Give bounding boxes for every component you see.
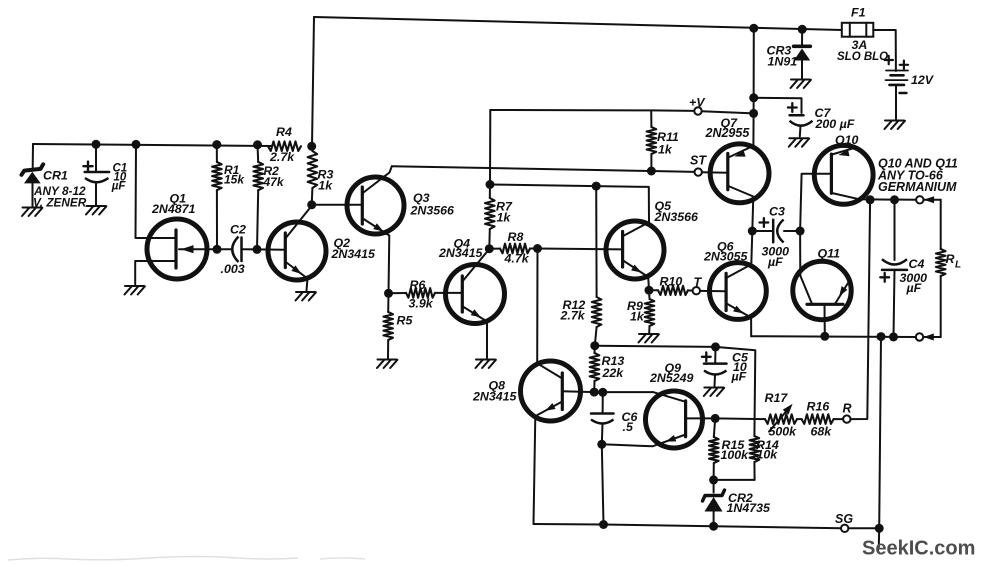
ground under C7 [789, 137, 808, 139]
svg-text:R8: R8 [508, 230, 524, 244]
svg-text:R4: R4 [276, 125, 292, 139]
wire SG to feedback column [848, 527, 879, 529]
node C5 top [711, 342, 720, 351]
resistor R10 [649, 289, 658, 291]
wire Q6 emitter down to output bottom rail [727, 304, 752, 337]
svg-text:100k: 100k [721, 448, 750, 462]
svg-text:SeekIC.com: SeekIC.com [862, 538, 975, 560]
wire R13 top to C5 and R14 feed [595, 346, 756, 436]
resistor R8 4.7k [489, 248, 500, 250]
svg-text:1k: 1k [658, 143, 673, 157]
capacitor C4 3000uF [894, 200, 896, 260]
svg-text:+V: +V [689, 96, 706, 110]
capacitor C6 .5 [602, 392, 604, 413]
svg-text:SG: SG [835, 512, 853, 526]
svg-text:R17: R17 [765, 391, 789, 405]
svg-text:2N3415: 2N3415 [472, 390, 518, 404]
resistor R6 3.9k [389, 292, 407, 294]
wire Q9 base to R15/R17 node [686, 417, 716, 419]
arrow into bottom output terminal [923, 334, 934, 341]
battery 12V [885, 59, 893, 61]
svg-text:2.7k: 2.7k [269, 150, 295, 164]
node R7 top [486, 180, 495, 189]
svg-text:µF: µF [111, 181, 127, 193]
wire C6 bottom down to bottom rail [602, 444, 604, 524]
ground under C5 [704, 387, 723, 389]
svg-text:µF: µF [731, 370, 747, 384]
arrow into top output terminal [924, 196, 935, 203]
ground under CR1 [23, 207, 42, 209]
svg-text:15k: 15k [224, 172, 245, 186]
wire Q1 emitter to node [179, 248, 232, 250]
svg-text:V. ZENER: V. ZENER [33, 196, 87, 210]
wire along Q8 base to Q9 collector [594, 391, 653, 393]
transistor Q6 2N3055 [710, 263, 767, 320]
svg-text:SLO BLO: SLO BLO [837, 51, 888, 63]
load resistor RL [940, 200, 942, 249]
node rail-Q1 feed [132, 140, 141, 149]
wire Q3 emitter down to R6/R5 node [363, 219, 390, 294]
node R12 / R13 / C5 wire [590, 341, 599, 350]
svg-text:1k: 1k [318, 178, 333, 192]
svg-text:1N91: 1N91 [768, 55, 798, 69]
svg-text:2N3566: 2N3566 [654, 210, 699, 224]
node C3 right / Q10 base column [796, 227, 805, 236]
terminal +V [694, 107, 701, 114]
node C2-R2-Q2 base [253, 245, 262, 254]
wire Q9 emitter to C6 bottom [602, 435, 686, 447]
wire Q11 collector diagonal to base column [800, 276, 812, 304]
wire Q5 collector up [623, 222, 649, 236]
svg-text:1k: 1k [630, 310, 645, 324]
node CR2 on SG rail [709, 522, 718, 531]
svg-text:R: R [843, 402, 852, 416]
wire R3 node to Q3 base [312, 204, 363, 206]
svg-text:Q11: Q11 [818, 247, 841, 261]
wire Q9 base node to R17 [715, 417, 765, 420]
svg-text:GERMANIUM: GERMANIUM [878, 180, 957, 194]
wire T to Q6 base [700, 290, 726, 292]
resistor R11 1k [650, 110, 652, 127]
node bottom rail at C6 [599, 520, 608, 529]
wire Q7 column to top rail [753, 28, 755, 113]
node output top / C4 [890, 195, 899, 204]
node C4 bottom [889, 332, 898, 341]
node Q1 emitter / R1 bottom [213, 245, 222, 254]
wire Q2 collector [286, 206, 312, 238]
svg-text:47k: 47k [263, 175, 285, 189]
svg-text:T: T [694, 276, 703, 290]
node R3 bottom / Q2 collector / Q3 base [307, 200, 316, 209]
svg-text:2N4871: 2N4871 [151, 202, 196, 216]
wire output bottom rail [751, 335, 916, 338]
ground under C1 [87, 205, 106, 207]
node R8 / Q5 base / Q8 collector [533, 244, 542, 253]
terminal T [693, 287, 700, 294]
zener diode CR2 1N4735 [713, 480, 715, 493]
resistor R1 15k [216, 145, 218, 162]
wire stub below SG node [878, 528, 880, 547]
node C7 branch [749, 93, 758, 102]
node Q3 emitter / R6 / R5 [384, 289, 393, 298]
svg-text:2.7k: 2.7k [560, 309, 586, 323]
wire vertical from top rail down to R4/R3 junction [312, 17, 314, 146]
transistor Q10 [814, 145, 873, 204]
wire bottom rail to SG [534, 524, 842, 528]
svg-text:12V: 12V [911, 73, 935, 87]
node top rail / Q7 column [749, 24, 758, 33]
svg-text:3A: 3A [852, 38, 868, 52]
wire Q6 collector up to C3 node [727, 231, 753, 278]
node Q5 emitter / R10 / R9 [645, 286, 654, 295]
svg-text:C2: C2 [230, 223, 246, 237]
svg-text:10k: 10k [757, 448, 779, 462]
terminal output bottom [916, 333, 923, 340]
wire ST to Q7 base [702, 171, 728, 174]
ground under battery [885, 120, 904, 122]
capacitor C2 .003 [232, 237, 238, 263]
terminal R [843, 415, 850, 422]
wire Q11 base down to output bottom rail [824, 304, 826, 336]
svg-text:500k: 500k [769, 424, 798, 438]
wire R14 bottom to CR2 node [714, 479, 755, 481]
wire Q1 base-1 to ground [135, 261, 175, 285]
resistor R9 1k [648, 290, 651, 299]
svg-text:L: L [955, 260, 961, 271]
wire Q10 base column [800, 174, 831, 276]
svg-text:2N3415: 2N3415 [331, 247, 377, 261]
node rail-R1 [212, 140, 221, 149]
wire Q3 collector to ST line [363, 166, 392, 193]
svg-text:2N3055: 2N3055 [703, 250, 749, 264]
wire Q2 emitter to ground [286, 262, 308, 291]
capacitor C5 10uF [714, 347, 716, 364]
fuse F1 3A SLO BLO [842, 23, 874, 37]
transistor Q7 2N2955 [710, 144, 769, 203]
ground under CR3 [791, 79, 810, 81]
wire R8 node down to Q8 collector [536, 249, 538, 364]
svg-text:68k: 68k [811, 424, 833, 438]
wire vertical +V corner down to R7 [489, 110, 491, 185]
wire Q8 emitter down to bottom rail [534, 402, 563, 525]
wire Q4 collector to R8 node [463, 249, 490, 281]
capacitor C1 10uF [95, 144, 97, 172]
wire top rail from Q3 column to fuse F1 [314, 17, 842, 30]
node R15/R14/CR2 [709, 475, 718, 484]
wire Q9 collector diagonal [653, 392, 686, 402]
wire Q4 emitter to ground [463, 307, 487, 359]
svg-text:ST: ST [690, 154, 707, 168]
wire +V terminal to Q7 emitter column [702, 111, 754, 113]
svg-text:µF: µF [906, 281, 922, 295]
wire Q3 collector to ST terminal [392, 166, 695, 172]
wire Q11 emitter diagonal (arrow) [835, 280, 850, 304]
svg-text:2N3566: 2N3566 [410, 204, 455, 218]
svg-text:.003: .003 [221, 262, 245, 276]
transistor Q5 2N3566 [606, 221, 664, 279]
ground under Q4 [476, 359, 495, 361]
transistor Q4 2N3415 [446, 265, 505, 324]
transistor Q9 2N5249 (mirrored) [646, 391, 703, 448]
svg-text:3.9k: 3.9k [409, 297, 434, 311]
node Q9 base / R15 / R17 wire [711, 414, 720, 423]
wire +V line [490, 109, 694, 112]
svg-text:R5: R5 [397, 314, 414, 328]
svg-text:1k: 1k [497, 211, 512, 225]
svg-text:1N4735: 1N4735 [727, 501, 772, 515]
node output top / feedback [866, 195, 875, 204]
svg-text:2N2955: 2N2955 [705, 126, 751, 140]
ground under R5 [378, 359, 397, 361]
ground under Q2 [296, 291, 315, 293]
node R13 bottom / Q8 base [590, 388, 599, 397]
node R4-R3 [307, 142, 316, 151]
wire fuse to battery [873, 30, 896, 71]
transistor Q2 2N3415 [268, 222, 326, 280]
node R11 bottom [647, 167, 656, 176]
node C6 bottom / Q9 emitter wire [597, 440, 606, 449]
transistor Q1 2N4871 [147, 219, 207, 279]
node SG rail / output column [875, 524, 884, 533]
wire C2 to Q2 base [257, 248, 284, 250]
wire rail to Q1 base-2 [136, 144, 176, 238]
resistor R2 47k [257, 145, 260, 162]
svg-text:F1: F1 [851, 6, 866, 20]
svg-text:4.7k: 4.7k [504, 252, 530, 266]
resistor R13 22k [594, 346, 596, 353]
svg-text:2N5249: 2N5249 [649, 371, 694, 385]
transistor Q3 2N3566 [347, 177, 404, 234]
node Q4 collector / R7 / R8 [485, 244, 494, 253]
wire Q10 emitter (arrow to base, PNP) [832, 147, 857, 154]
node rail-R2 [253, 140, 262, 149]
wire output rail down to SG rail [879, 337, 881, 529]
node top rail / CR3 [798, 25, 807, 34]
svg-text:2N3415: 2N3415 [438, 246, 484, 260]
resistor R5 [383, 312, 393, 340]
capacitor C3 3000uF [752, 230, 773, 232]
terminal SG [841, 525, 848, 532]
capacitor C7 200uF [790, 114, 804, 117]
svg-text:22k: 22k [602, 366, 625, 380]
terminal output top [916, 196, 923, 203]
ground under Q1 [125, 285, 144, 287]
svg-text:R16: R16 [807, 400, 830, 414]
wire Q7 emitter up to top rail [728, 113, 753, 157]
svg-text:µF: µF [767, 255, 783, 269]
wire R terminal up to output line [851, 200, 871, 419]
svg-text:C3: C3 [769, 205, 785, 219]
transistor Q11 [793, 261, 851, 319]
node feedback column on rail [877, 332, 886, 341]
wire Q7 collector down to C3 [728, 186, 753, 231]
resistor R3 1k [311, 146, 314, 151]
potentiometer R17 500k [765, 414, 797, 424]
node R12 top [592, 182, 601, 191]
wire Q8 base to R13 node [562, 390, 594, 393]
node Q11 base on rail [820, 332, 829, 341]
resistor R4 2.7k [268, 141, 301, 151]
faint scan remnant marks [8, 557, 298, 561]
svg-text:Q10: Q10 [835, 133, 859, 147]
node C3 left / Q7-Q6 column [748, 227, 757, 236]
wire R8 node to Q5 base [538, 248, 623, 251]
svg-text:R: R [946, 252, 955, 266]
transistor Q8 2N3415 (mirrored) [521, 361, 581, 421]
wire left supply rail CR1 to R4 [33, 144, 272, 146]
zener diode CR1 [32, 144, 34, 168]
resistor R12 2.7k [595, 186, 597, 297]
diode CR3 1N91 [801, 29, 803, 45]
wire output top line [860, 198, 917, 201]
resistor R16 68k [797, 418, 802, 420]
wire Q8 collector diagonal [537, 363, 562, 378]
ground under R9 [639, 333, 658, 335]
svg-text:C4: C4 [909, 257, 925, 271]
wire R7-top to R12-top to Q5 collector [490, 185, 649, 222]
terminal ST [695, 168, 702, 175]
resistor R15 100k [714, 418, 715, 437]
resistor R7 1k [489, 185, 491, 199]
node +V on Q7 column [749, 109, 758, 118]
node rail-C1 [92, 140, 101, 149]
wire Q10 collector to output line [832, 193, 860, 199]
svg-text:CR1: CR1 [43, 169, 68, 183]
wire Q5 emitter down to R10/R9 node [623, 261, 649, 291]
resistor R14 10k [750, 436, 760, 462]
svg-text:200 µF: 200 µF [815, 117, 855, 131]
node C6 top [598, 388, 607, 397]
svg-text:R10: R10 [660, 275, 683, 289]
svg-text:R6: R6 [410, 278, 426, 292]
wire C7 branch [754, 98, 802, 113]
svg-text:.5: .5 [623, 420, 634, 434]
